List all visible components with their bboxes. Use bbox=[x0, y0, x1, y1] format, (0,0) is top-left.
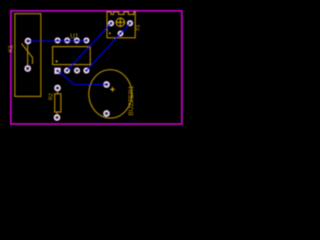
U1 pad 1 (square) bbox=[54, 67, 61, 74]
wire: ratsnest relay pad to U1 pin row bbox=[28, 40, 86, 42]
wire: ratsnest U1 pad1 to buzzer pad + bbox=[58, 71, 107, 85]
R2 pad top bbox=[54, 84, 61, 91]
R2 pad bottom bbox=[53, 114, 60, 121]
U1 pad 8 bbox=[54, 37, 61, 44]
relay pad 2 bbox=[24, 65, 31, 72]
svg-text:X1: X1 bbox=[136, 25, 142, 31]
R2 stub bottom bbox=[56, 112, 58, 117]
buzzer outline bbox=[89, 70, 132, 118]
connector left pad bbox=[108, 20, 115, 27]
U1 pad 4 bbox=[83, 67, 90, 74]
connector pin1 dot bbox=[109, 32, 111, 34]
relay K1 outline bbox=[15, 14, 41, 97]
R2 stub top bbox=[57, 89, 59, 94]
buzzer plus mark bbox=[110, 87, 115, 92]
svg-text:BUZZER1: BUZZER1 bbox=[128, 85, 135, 115]
buzzer pad + bbox=[103, 81, 110, 88]
U1 pad 5 bbox=[83, 37, 90, 44]
relay K1 coil line bbox=[27, 42, 29, 68]
U1 pad 2 bbox=[64, 67, 71, 74]
wire: ratsnest U1 pad4 to connector X1 bottom pad bbox=[86, 23, 130, 70]
connector right pad bbox=[127, 20, 134, 27]
relay pad 1 bbox=[24, 37, 31, 44]
connector mounting hole crosshair bbox=[115, 17, 125, 27]
relay K1 lever bbox=[22, 44, 33, 65]
U1 pad 3 bbox=[74, 67, 81, 74]
connector X1 outline with castellated top bbox=[107, 12, 135, 38]
svg-text:K1: K1 bbox=[9, 44, 15, 52]
connector bottom pad bbox=[117, 30, 123, 36]
U1 pad 7 bbox=[64, 37, 71, 44]
svg-text:R2: R2 bbox=[48, 93, 54, 100]
IC U1 outline bbox=[53, 47, 91, 65]
resistor R2 outline bbox=[55, 94, 61, 112]
wire: ratsnest U1 pad2 to connector X1 left pad bbox=[67, 23, 111, 70]
buzzer pad - bbox=[103, 110, 110, 117]
U1 pad 6 bbox=[74, 37, 81, 44]
board outline (keepout border) bbox=[11, 11, 182, 124]
U1 pin1 dot bbox=[56, 60, 58, 62]
